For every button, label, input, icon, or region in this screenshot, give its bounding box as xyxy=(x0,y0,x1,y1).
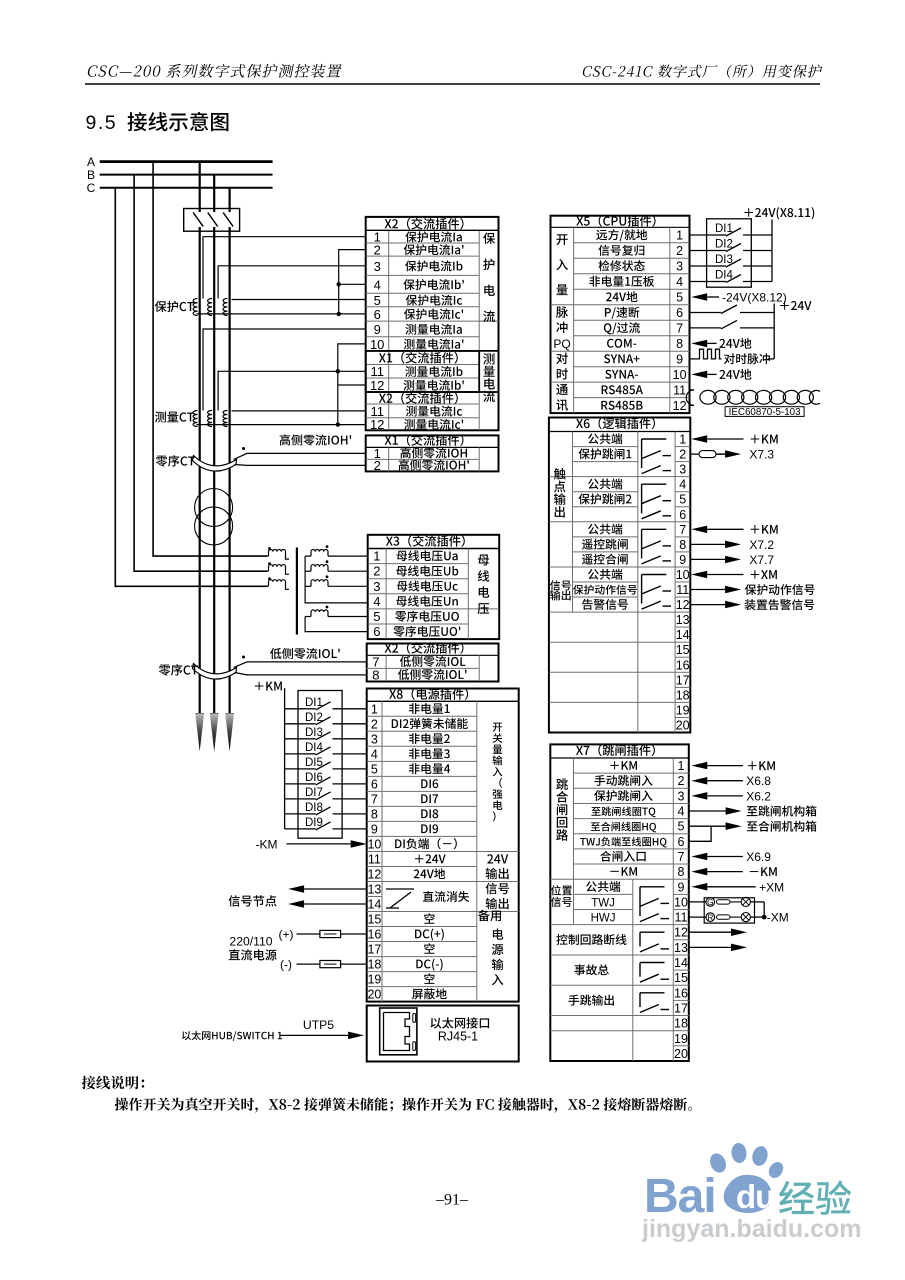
junction dot X2.6 xyxy=(337,312,341,316)
svg-text:-XM: -XM xyxy=(767,911,789,925)
svg-text:2: 2 xyxy=(374,243,381,258)
label 信号节点 xyxy=(229,895,277,906)
arrow 至跳闸机构箱 xyxy=(726,807,742,815)
svg-text:7: 7 xyxy=(371,792,378,806)
svg-text:4: 4 xyxy=(678,805,685,819)
X7 header xyxy=(576,744,655,756)
svg-text:9: 9 xyxy=(371,822,378,836)
svg-text:4: 4 xyxy=(374,277,381,292)
svg-text:9: 9 xyxy=(374,322,381,337)
wire X2.11a xyxy=(218,371,366,410)
svg-text:-KM: -KM xyxy=(256,837,278,851)
X7 contact pair 12-13 xyxy=(640,931,665,933)
switch DI4 (X8) xyxy=(285,753,303,755)
arrow +KM X7.1 xyxy=(691,762,707,770)
svg-text:14: 14 xyxy=(676,628,690,642)
label 以太网HUB/SWITCH 1 xyxy=(182,1031,282,1041)
label 保护CT xyxy=(155,301,194,312)
svg-text:5: 5 xyxy=(374,293,381,308)
breaker blade 2 xyxy=(208,212,218,227)
PT U0 coil xyxy=(305,617,368,632)
wire X2L.7 IOL xyxy=(234,662,367,668)
switch P/Q pulse 7 xyxy=(690,327,721,329)
wire X2.1 xyxy=(203,237,366,299)
label 低侧零流IOL' xyxy=(270,648,340,659)
wire X2.5 xyxy=(232,299,366,301)
wire B to PT xyxy=(134,175,267,572)
connector X2 (AC plugin) low-side table xyxy=(367,644,499,682)
arrow 至合闸机构箱 xyxy=(726,822,742,830)
svg-text:17: 17 xyxy=(674,1002,688,1016)
wire C to PT xyxy=(115,188,267,587)
wire X2.3 xyxy=(218,266,366,299)
page header left xyxy=(87,64,343,78)
svg-text:–91–: –91– xyxy=(435,1192,469,1209)
PT secondary common xyxy=(305,556,368,603)
svg-text:2: 2 xyxy=(679,448,686,462)
phase A line xyxy=(199,162,201,714)
arrow +KM X6.7 xyxy=(691,526,707,534)
X7 contact pair 16-17 xyxy=(640,992,665,994)
breaker blade 3 xyxy=(223,212,233,227)
measurement CT B coil xyxy=(208,411,212,427)
X8 pin13-14 DC-loss contact xyxy=(386,888,414,890)
svg-text:12: 12 xyxy=(367,868,381,882)
connector X7 (trip plugin) table frame xyxy=(550,744,689,1061)
breaker blade 1 xyxy=(193,212,203,227)
X6 header xyxy=(576,418,655,430)
svg-text:6: 6 xyxy=(679,508,686,522)
arrow X8.13 xyxy=(288,885,304,893)
switch DI8 (X8) xyxy=(285,813,303,815)
svg-text:-24V(X8.12): -24V(X8.12) xyxy=(722,291,787,305)
svg-text:11: 11 xyxy=(673,383,686,397)
label 直流电源 xyxy=(229,949,277,960)
SYNA pulse symbol xyxy=(690,349,722,359)
wire X2.12a stub xyxy=(338,384,366,386)
fuse and arrow X7.3 xyxy=(690,453,699,455)
switch DI5 (X8) xyxy=(285,768,303,770)
svg-text:3: 3 xyxy=(679,463,686,477)
+24V bus 2 xyxy=(773,304,775,359)
svg-text:16: 16 xyxy=(676,658,690,672)
connector X1 (AC plugin) IOH table xyxy=(366,435,499,471)
svg-text:6: 6 xyxy=(373,624,380,639)
DI1-4 input box xyxy=(707,219,752,287)
svg-text:3: 3 xyxy=(678,789,685,803)
note body xyxy=(115,1098,692,1113)
svg-text:X7.7: X7.7 xyxy=(749,553,774,567)
switch DI1 (X8) xyxy=(285,708,303,710)
label 备用 xyxy=(478,910,501,922)
svg-text:2: 2 xyxy=(676,244,683,258)
X3 header xyxy=(386,535,465,547)
svg-text:19: 19 xyxy=(367,973,381,987)
X7 contact group pins9-11 xyxy=(640,886,665,888)
label 通讯 vertical xyxy=(556,384,568,395)
switch P/Q pulse 6 xyxy=(690,312,721,314)
wire X1.2 IOH' xyxy=(235,464,366,467)
svg-text:8: 8 xyxy=(371,807,378,821)
arrow X8.14 xyxy=(288,900,304,908)
svg-text:11: 11 xyxy=(370,364,384,379)
svg-text:RJ45-1: RJ45-1 xyxy=(438,1030,478,1044)
svg-text:3: 3 xyxy=(373,579,380,594)
line-end arrow 2 xyxy=(210,714,219,752)
label 事故总 xyxy=(574,964,608,975)
header rule xyxy=(85,83,820,85)
svg-text:+XM: +XM xyxy=(759,880,784,894)
svg-text:3: 3 xyxy=(676,260,683,274)
svg-text:15: 15 xyxy=(367,913,381,927)
wire A to PT xyxy=(153,162,267,556)
svg-text:(+): (+) xyxy=(279,928,294,942)
svg-text:8: 8 xyxy=(679,538,686,552)
X5 labels and pins xyxy=(596,229,647,241)
svg-text:9: 9 xyxy=(678,880,685,894)
svg-text:4: 4 xyxy=(371,747,378,761)
svg-text:12: 12 xyxy=(370,417,384,432)
svg-text:9: 9 xyxy=(679,553,686,567)
svg-text:6: 6 xyxy=(676,306,683,320)
connector X2 (AC plugin) table frame xyxy=(366,217,499,430)
svg-text:10: 10 xyxy=(370,337,384,352)
svg-text:2: 2 xyxy=(371,717,378,731)
svg-text:5: 5 xyxy=(679,493,686,507)
PT secondary coil Ua sec xyxy=(305,555,311,557)
label 24V输出 xyxy=(487,854,508,863)
svg-text:12: 12 xyxy=(676,598,690,612)
zero-seq CT1 ring xyxy=(193,456,237,472)
UTP5 arrow xyxy=(348,1032,364,1040)
svg-text:4: 4 xyxy=(676,275,683,289)
PT primary coil Uc xyxy=(267,585,269,587)
wire X2.2 return bus xyxy=(339,250,366,314)
svg-text:5: 5 xyxy=(373,609,380,624)
switch DI3 xyxy=(690,265,713,267)
switch DI1 xyxy=(690,234,713,236)
measurement CT C coil xyxy=(223,411,227,427)
label 跳合闸回路 vertical xyxy=(556,778,568,790)
svg-text:13: 13 xyxy=(367,883,381,897)
breaker box xyxy=(184,209,240,232)
+24V label 2 xyxy=(780,301,811,310)
X1 subtable thick frame xyxy=(366,351,480,392)
X8 header xyxy=(389,688,468,700)
bus C xyxy=(100,187,273,189)
label 控制回路断线 xyxy=(556,934,626,945)
+KM label X8 xyxy=(255,682,282,691)
PT primary coil Ub xyxy=(267,570,269,572)
svg-text:1: 1 xyxy=(678,759,685,773)
svg-text:A: A xyxy=(87,155,95,169)
transformer circle 2 xyxy=(195,507,233,545)
svg-text:3: 3 xyxy=(371,732,378,746)
X7 contact pair 14-15 xyxy=(640,962,665,964)
svg-text:18: 18 xyxy=(674,1017,688,1031)
note heading 接线说明 xyxy=(82,1076,144,1090)
arrow X6.2 xyxy=(691,792,707,800)
svg-text:PQ: PQ xyxy=(553,337,570,351)
line-end arrow 1 xyxy=(195,714,204,752)
svg-text:13: 13 xyxy=(674,941,688,955)
RJ45 jack icon xyxy=(380,1008,417,1055)
arrow +XM X6.10 xyxy=(691,571,707,579)
arrow X6.9 xyxy=(691,853,707,861)
PT core bar xyxy=(296,548,298,635)
protection CT C coil xyxy=(223,299,227,316)
svg-text:1: 1 xyxy=(373,549,380,564)
svg-text:HWJ: HWJ xyxy=(591,913,616,925)
svg-text:3: 3 xyxy=(374,259,381,274)
svg-text:7: 7 xyxy=(678,850,685,864)
svg-text:10: 10 xyxy=(676,568,690,582)
position lamps G/R with -XM xyxy=(704,898,754,923)
svg-text:du: du xyxy=(736,1178,774,1215)
svg-text:18: 18 xyxy=(367,958,381,972)
arrow 24V地 SYNA- xyxy=(691,371,707,379)
svg-text:(-): (-) xyxy=(280,958,292,972)
label 对时脉冲 xyxy=(724,353,770,364)
X6 contact group pins4-6 xyxy=(642,483,667,485)
switch DI3 (X8) xyxy=(285,738,303,740)
wire X2.12b common xyxy=(197,424,366,426)
svg-text:20: 20 xyxy=(674,1047,688,1061)
arrow X7.7 xyxy=(725,556,741,564)
svg-text:15: 15 xyxy=(676,643,690,657)
svg-text:8: 8 xyxy=(372,667,379,682)
X5 header xyxy=(576,215,655,227)
svg-text:X7.3: X7.3 xyxy=(749,448,774,462)
label 开入量 vertical xyxy=(556,234,567,245)
junction dot X2.12b xyxy=(336,422,340,426)
arrow X7.12 xyxy=(731,929,747,937)
label 直流消失 xyxy=(423,891,469,902)
phase C line xyxy=(229,188,231,714)
svg-text:4: 4 xyxy=(373,594,380,609)
label 信号输出 xyxy=(550,580,571,590)
label 触点输出 vertical xyxy=(554,468,566,480)
junction dot X2.12a xyxy=(336,369,340,373)
svg-text:C: C xyxy=(87,181,96,195)
svg-text:12: 12 xyxy=(673,399,687,413)
svg-text:17: 17 xyxy=(367,943,381,957)
svg-text:18: 18 xyxy=(676,688,690,702)
arrow X7.2 xyxy=(725,541,741,549)
bus B xyxy=(100,174,273,176)
switch DI2 xyxy=(690,250,713,252)
DI1-9 box xyxy=(298,691,342,839)
wire X2.10 return bus xyxy=(338,344,366,425)
svg-text:10: 10 xyxy=(674,895,688,909)
svg-text:5: 5 xyxy=(676,291,683,305)
svg-text:1: 1 xyxy=(676,229,683,243)
phase B line xyxy=(213,175,215,714)
polarity dot IOH xyxy=(242,447,245,450)
arrow 24V地 COM- xyxy=(691,340,707,348)
label 脉冲PQ vertical xyxy=(556,306,568,318)
switch DI4 xyxy=(690,281,713,283)
switch DI2 (X8) xyxy=(285,723,303,725)
measurement CT A coil xyxy=(193,411,197,427)
label 对时 vertical xyxy=(556,353,568,365)
label 保护电流 vertical xyxy=(483,232,495,244)
svg-text:12: 12 xyxy=(674,926,688,940)
arrow 保护动作信号 xyxy=(725,586,741,594)
wire X2.11b xyxy=(232,410,366,412)
label 以太网接口 xyxy=(431,1017,490,1028)
arrow -KM X7.8 xyxy=(691,868,707,876)
svg-text:14: 14 xyxy=(674,956,688,970)
svg-text:16: 16 xyxy=(367,928,381,942)
bus A xyxy=(100,160,273,163)
svg-text:2: 2 xyxy=(373,564,380,579)
page header right xyxy=(582,64,823,77)
wire X2.4 stub xyxy=(339,283,366,285)
X6 contact group pins10-12 xyxy=(642,574,667,576)
label 位置信号 xyxy=(551,885,572,895)
X2 table header xyxy=(385,218,464,230)
RS485 twisted pair xyxy=(690,389,695,391)
svg-text:11: 11 xyxy=(368,853,381,867)
connector X5 (CPU plugin) table frame xyxy=(551,216,690,413)
IEC60870-5-103 box xyxy=(725,407,804,417)
X2L header xyxy=(385,642,464,654)
X1 IOH header xyxy=(385,434,464,446)
label 零序CT low xyxy=(159,664,198,676)
svg-text:17: 17 xyxy=(676,673,690,687)
svg-text:9.5: 9.5 xyxy=(86,112,118,134)
svg-text:19: 19 xyxy=(674,1032,688,1046)
svg-text:X6.8: X6.8 xyxy=(746,774,771,788)
svg-text:10: 10 xyxy=(673,368,687,382)
svg-text:G: G xyxy=(707,897,714,907)
X6 contact group pins7-9 xyxy=(642,528,667,530)
svg-text:4: 4 xyxy=(679,478,686,492)
arrow 装置告警信号 xyxy=(725,601,741,609)
svg-text:20: 20 xyxy=(676,719,690,733)
X6 contact group pins1-3 xyxy=(642,438,667,440)
PT primary coil Ua xyxy=(267,555,269,557)
svg-text:X6.2: X6.2 xyxy=(746,789,771,803)
svg-text:2: 2 xyxy=(678,774,685,788)
svg-text:5: 5 xyxy=(678,820,685,834)
arrow +XM X7.9 xyxy=(691,883,707,891)
PT secondary coil Ub sec xyxy=(305,570,311,572)
wire X7.6 to HQ bracket xyxy=(689,826,711,841)
svg-text:5: 5 xyxy=(371,762,378,776)
svg-text:6: 6 xyxy=(371,777,378,791)
protection CT B coil xyxy=(208,299,212,316)
wire X2.9 xyxy=(203,329,366,411)
svg-text:2: 2 xyxy=(374,458,381,473)
svg-text:13: 13 xyxy=(676,613,690,627)
polarity dot IOL xyxy=(242,656,245,659)
label 零序CT high xyxy=(156,455,195,467)
protection CT A coil xyxy=(193,299,197,316)
transformer circle 1 xyxy=(195,489,233,527)
svg-text:6: 6 xyxy=(678,835,685,849)
arrow +KM X6.1 xyxy=(691,435,707,443)
label 开关量输入(强电) vertical xyxy=(493,723,502,732)
svg-text:19: 19 xyxy=(676,703,690,717)
+24V bus right of DI box xyxy=(771,220,773,282)
svg-text:IEC60870-5-103: IEC60870-5-103 xyxy=(729,407,801,418)
svg-text:X7.2: X7.2 xyxy=(749,538,774,552)
svg-text:R: R xyxy=(707,912,713,922)
arrow -24V X8.12 xyxy=(691,293,707,301)
svg-text:TWJ: TWJ xyxy=(591,897,615,909)
line-end arrow 3 xyxy=(225,714,234,752)
switch DI9 (X8) xyxy=(285,828,303,830)
wire X2L.8 IOL' xyxy=(235,673,367,675)
label 信号输出 xyxy=(486,883,509,894)
svg-text:16: 16 xyxy=(674,986,688,1000)
junction dot X2.4 xyxy=(337,282,341,286)
zero-seq CT2 ring xyxy=(193,664,237,680)
connector X3 (AC plugin) table frame xyxy=(368,535,500,639)
svg-text:8: 8 xyxy=(676,337,683,351)
svg-text:15: 15 xyxy=(674,971,688,985)
svg-text:8: 8 xyxy=(678,865,685,879)
wire X1.1 IOH xyxy=(234,453,366,459)
svg-text:UTP5: UTP5 xyxy=(303,1018,334,1032)
svg-text:B: B xyxy=(87,168,95,182)
svg-text:220/110: 220/110 xyxy=(229,935,272,949)
svg-text:jingyan.baidu.com: jingyan.baidu.com xyxy=(641,1215,861,1243)
+24V X8.11 label xyxy=(744,207,814,219)
switch DI7 (X8) xyxy=(285,798,303,800)
svg-text:6: 6 xyxy=(374,307,381,322)
label 高侧零流IOH' xyxy=(280,434,351,445)
svg-text:7: 7 xyxy=(676,321,683,335)
label 母线电压 vertical xyxy=(478,555,489,566)
svg-text:7: 7 xyxy=(679,523,686,537)
svg-text:11: 11 xyxy=(676,583,689,597)
PT secondary coil Uc sec xyxy=(305,585,311,587)
label 测量CT xyxy=(155,411,194,422)
arrow X7.13 xyxy=(731,944,747,952)
label 测量电流 vertical xyxy=(483,353,494,364)
connector X6 (logic plugin) table frame xyxy=(549,418,690,733)
svg-text:1: 1 xyxy=(371,702,378,716)
svg-text:12: 12 xyxy=(370,378,384,393)
svg-text:10: 10 xyxy=(367,837,381,851)
svg-text:14: 14 xyxy=(367,898,381,912)
arrow X6.8 xyxy=(691,777,707,785)
+KM bus xyxy=(284,688,286,829)
label 电源输入 vertical xyxy=(493,929,503,940)
svg-text:20: 20 xyxy=(367,988,381,1002)
svg-text:9: 9 xyxy=(676,352,683,366)
svg-text:X6.9: X6.9 xyxy=(746,850,771,864)
connector X8 (power plugin) table frame xyxy=(367,689,519,1002)
label 手跳输出 xyxy=(568,995,614,1006)
svg-text:11: 11 xyxy=(675,911,688,925)
ethernet RJ45 box xyxy=(367,1006,519,1062)
wire X2.6 common xyxy=(197,313,366,315)
switch DI6 (X8) xyxy=(285,783,303,785)
svg-text:1: 1 xyxy=(679,433,686,447)
